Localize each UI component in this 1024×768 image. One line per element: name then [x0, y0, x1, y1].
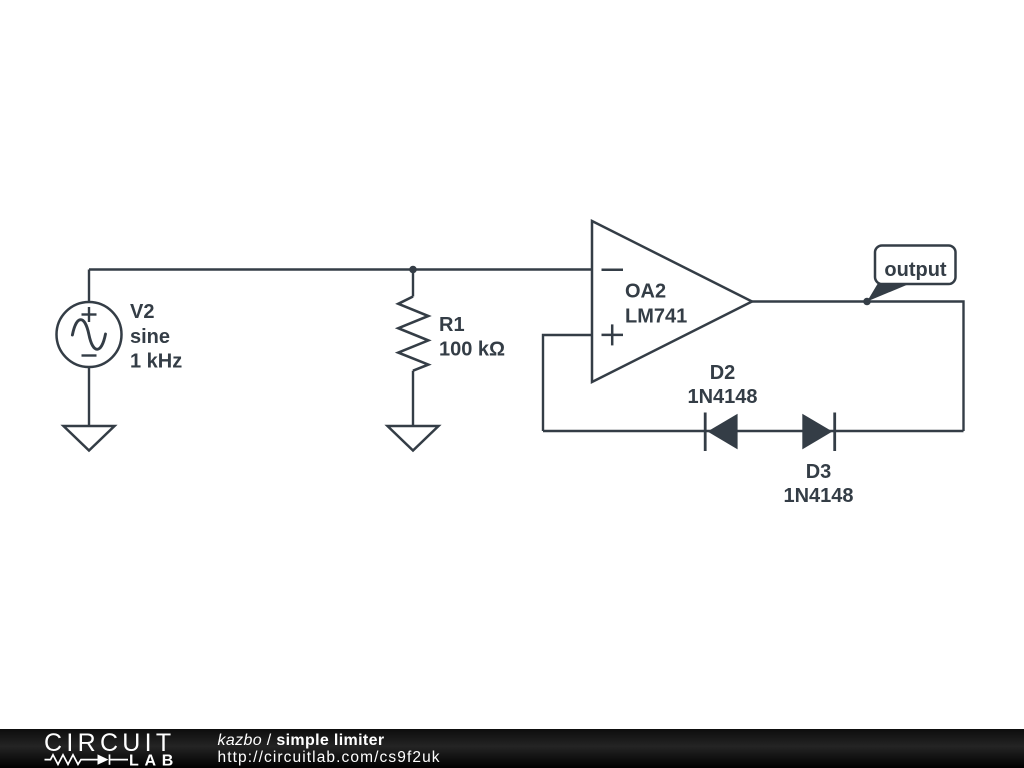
svg-text:http://circuitlab.com/cs9f2uk: http://circuitlab.com/cs9f2uk — [218, 749, 441, 766]
svg-text:1N4148: 1N4148 — [687, 386, 757, 408]
svg-text:output: output — [884, 259, 947, 281]
wire R1 bottom lead — [412, 371, 414, 425]
node junction dot (output node) — [863, 298, 871, 306]
svg-text:D3: D3 — [806, 461, 832, 483]
svg-text:1N4148: 1N4148 — [783, 485, 853, 507]
wire op-amp non-inverting input feedback — [543, 335, 592, 431]
diode D3 (cathode right) — [802, 413, 834, 452]
label OA2 LM741 — [625, 281, 687, 328]
wire R1 top lead — [412, 270, 414, 297]
op-amp inverting input minus sign — [602, 269, 624, 272]
label V2 sine 1 kHz — [130, 301, 182, 373]
svg-text:sine: sine — [130, 326, 170, 348]
label D2 1N4148 — [687, 362, 757, 408]
label D3 1N4148 — [783, 461, 853, 507]
voltage source V2 — [57, 302, 122, 367]
op-amp non-inverting input plus sign — [602, 324, 624, 345]
CircuitLab logo squiggle resistor-diode — [45, 754, 129, 764]
wire top net: V2 to op-amp inverting input — [89, 268, 592, 270]
node junction dot (top net at R1) — [409, 266, 417, 274]
ground (R1) — [388, 426, 439, 451]
diode D2 (cathode left) — [705, 413, 737, 452]
resistor R1 — [398, 297, 428, 371]
svg-text:LAB: LAB — [129, 752, 179, 768]
svg-text:1 kHz: 1 kHz — [130, 351, 182, 373]
svg-text:LM741: LM741 — [625, 305, 687, 327]
svg-text:kazbo / simple limiter: kazbo / simple limiter — [218, 732, 385, 749]
op-amp OA2 triangle — [592, 221, 752, 382]
svg-text:OA2: OA2 — [625, 281, 666, 303]
wire output net — [752, 302, 964, 432]
label R1 100 kOhm — [439, 314, 505, 361]
svg-text:100 kΩ: 100 kΩ — [439, 339, 505, 361]
wire bottom feedback net — [543, 430, 964, 432]
svg-text:R1: R1 — [439, 314, 465, 336]
footer bar — [0, 729, 1024, 768]
wire V2 top lead — [88, 270, 90, 303]
svg-text:D2: D2 — [710, 362, 736, 384]
node flag output callout — [867, 246, 956, 302]
svg-text:V2: V2 — [130, 301, 154, 323]
ground (V2) — [64, 426, 115, 451]
wire V2 bottom lead — [88, 367, 90, 425]
